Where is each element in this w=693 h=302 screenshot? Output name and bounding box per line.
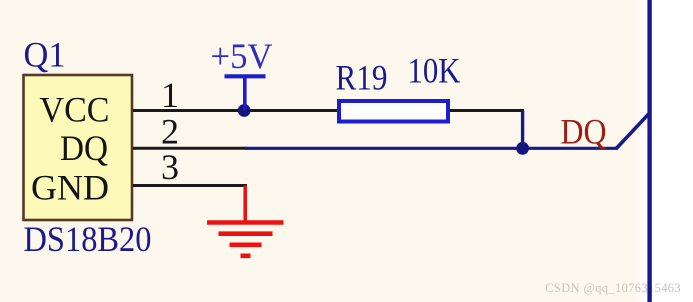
svg-text:3: 3 <box>161 147 179 187</box>
svg-text:2: 2 <box>161 111 179 151</box>
svg-text:VCC: VCC <box>40 90 110 130</box>
svg-text:DQ: DQ <box>561 112 607 152</box>
svg-text:10K: 10K <box>408 51 461 91</box>
svg-text:Q1: Q1 <box>24 35 66 75</box>
svg-text:1: 1 <box>161 75 179 115</box>
svg-text:GND: GND <box>31 168 109 208</box>
svg-text:+5V: +5V <box>211 36 273 76</box>
svg-text:DS18B20: DS18B20 <box>24 219 152 259</box>
svg-text:R19: R19 <box>336 58 388 98</box>
svg-text:CSDN @qq_1076315463: CSDN @qq_1076315463 <box>545 281 681 295</box>
svg-text:DQ: DQ <box>60 128 108 168</box>
